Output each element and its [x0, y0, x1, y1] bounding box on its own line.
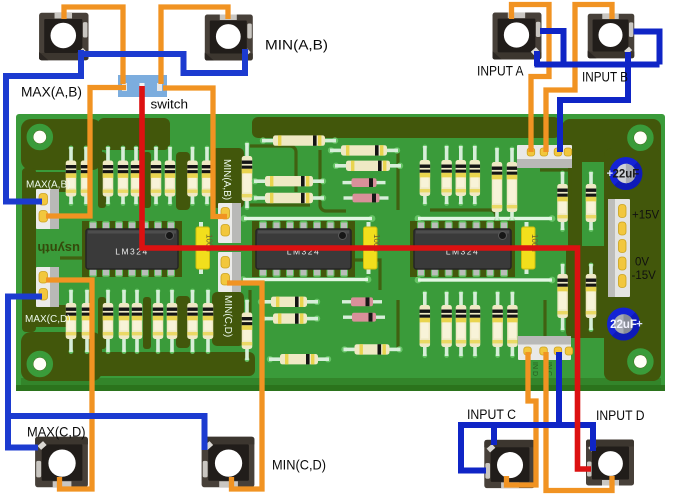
connector MIN(C,D): [218, 252, 241, 292]
wire INPUT A jack to header pin1 (orange): [512, 5, 550, 153]
resistor: [103, 289, 114, 354]
resistor: [260, 135, 338, 145]
resistor: [507, 291, 518, 358]
op-amp U3 LM324: [410, 221, 515, 277]
resistor: [557, 263, 568, 332]
resistor: [557, 171, 568, 232]
resistor: [470, 145, 481, 206]
capacitor C1 100n: [196, 222, 214, 274]
resistor: [252, 176, 326, 186]
op-amp U1 LM324: [82, 221, 182, 277]
capacitor C4 22uF electrolytic: [607, 157, 643, 190]
wire INPUT C/D link (blue): [461, 425, 593, 471]
jumper wire: [240, 276, 372, 283]
resistor: [202, 146, 213, 206]
op-amp U2 LM324: [252, 221, 355, 277]
jumper wire: [415, 277, 556, 284]
jack socket INPUT A: [493, 13, 542, 60]
resistor: [242, 142, 253, 210]
resistor: [151, 146, 162, 206]
wire INPUT B jack loop (blue): [634, 32, 660, 65]
resistor: [456, 145, 467, 206]
switch component: [118, 75, 167, 97]
resistor: [132, 289, 143, 354]
connector power header: [608, 199, 630, 297]
connector INPUT C/D: [518, 336, 573, 360]
svg-text:INPUT D: INPUT D: [596, 408, 645, 423]
resistor: [167, 289, 178, 354]
svg-text:INPUT C: INPUT C: [467, 407, 516, 422]
wire jack1 top to switch left pin (orange): [64, 7, 123, 84]
resistor: [586, 263, 597, 332]
wire jack1 to MAX(A,B) header (blue): [6, 50, 81, 202]
svg-text:MIN(C,D): MIN(C,D): [272, 457, 326, 473]
resistor: [456, 291, 467, 358]
svg-text:MIN(A,B): MIN(A,B): [221, 159, 232, 200]
wire jack2 top to switch right pin (orange): [161, 7, 228, 84]
wire jack A-B long link (blue): [535, 62, 660, 68]
svg-text:MIN(A,B): MIN(A,B): [265, 37, 328, 53]
resistor: [441, 145, 452, 206]
resistor: [507, 147, 518, 222]
resistor: [420, 291, 431, 358]
resistor: [119, 289, 130, 354]
resistor: [103, 146, 114, 206]
svg-text:-15V: -15V: [632, 270, 657, 282]
resistor: [258, 297, 320, 307]
svg-text:22uF: 22uF: [610, 319, 637, 331]
resistor: [333, 161, 403, 171]
wire INPUT A jack loop (blue): [540, 31, 564, 65]
resistor: [420, 145, 431, 206]
svg-text:+15V: +15V: [632, 210, 660, 222]
diode: [342, 297, 382, 306]
resistor: [586, 171, 597, 232]
diode: [343, 178, 386, 187]
connector MIN(A,B): [218, 203, 241, 243]
capacitor C5 22uF electrolytic: [607, 308, 643, 341]
resistor: [165, 146, 176, 206]
svg-text:MAX(C,D): MAX(C,D): [27, 424, 86, 440]
diode: [343, 313, 385, 322]
jumper wire: [241, 215, 376, 222]
wire jack3 to jack4 link (blue): [8, 416, 205, 450]
mounting hole: [630, 128, 650, 148]
wire switch right pin to MIN(A,B) header (orange): [163, 88, 227, 217]
resistor: [441, 291, 452, 358]
svg-text:MIN(C,D): MIN(C,D): [222, 295, 233, 337]
wire jack1 to jack2 link (blue): [79, 49, 245, 73]
resistor: [492, 291, 503, 358]
jack socket INPUT D: [586, 440, 634, 486]
wire INPUT B to header pin3 (blue): [560, 52, 628, 152]
resistor: [66, 289, 77, 354]
capacitor C2 100n: [364, 222, 382, 274]
svg-text:usynth: usynth: [37, 241, 80, 256]
wire INPUT C corner pin stub (blue): [491, 427, 497, 445]
resistor: [267, 354, 331, 364]
resistor: [153, 289, 164, 354]
svg-text:INPUT A: INPUT A: [477, 64, 524, 79]
jack socket MAX(A,B) output: [39, 13, 88, 60]
capacitor C3 100n: [522, 222, 540, 274]
resistor: [492, 147, 503, 222]
wire MAX(C,D) header to jack3 (blue): [8, 297, 42, 448]
PCB board: [16, 114, 665, 391]
wire switch to INPUT D jack (red): [142, 86, 591, 469]
resistor: [118, 146, 129, 206]
resistor: [242, 299, 253, 362]
resistor: [260, 313, 320, 323]
resistor: [252, 193, 326, 203]
svg-text:MAX(A,B): MAX(A,B): [21, 84, 82, 100]
svg-text:MAX(A,B): MAX(A,B): [26, 180, 70, 191]
jack socket MIN(C,D) output: [202, 437, 255, 488]
wire switch left pin to MAX(A,B) header (orange): [46, 88, 126, 217]
resistor: [341, 344, 402, 354]
svg-text:INPUT B: INPUT B: [582, 70, 628, 85]
wire header to INPUT D jack (orange): [546, 352, 612, 491]
resistor: [66, 146, 77, 206]
resistor: [187, 289, 198, 354]
diode: [344, 194, 389, 203]
mounting hole: [630, 352, 650, 372]
wire MAX(C,D) header to jack3 (orange): [46, 280, 92, 489]
wire INPUT A corner pin stub (blue): [534, 51, 540, 66]
jack socket MAX(C,D) output: [35, 437, 88, 488]
jack socket MIN(A,B) output: [205, 15, 253, 61]
connector MAX(C,D): [36, 267, 59, 307]
resistor: [131, 146, 142, 206]
svg-text:0V: 0V: [635, 257, 649, 269]
svg-text:IN D: IN D: [531, 362, 538, 376]
resistor: [328, 145, 400, 155]
wire INPUT B jack to header pin2 (orange): [546, 5, 612, 153]
svg-text:MAX(C,D): MAX(C,D): [25, 314, 71, 325]
resistor: [470, 291, 481, 358]
resistor: [187, 146, 198, 206]
resistor: [81, 146, 92, 206]
wire header to INPUT C jack (orange): [507, 352, 537, 485]
wire MIN(C,D) header to jack4 (orange): [227, 283, 262, 489]
resistor: [203, 289, 214, 354]
jack socket INPUT C: [484, 440, 534, 488]
connector INPUT A/B: [517, 145, 572, 168]
jumper wire: [415, 215, 556, 222]
svg-text:22uF: 22uF: [612, 169, 639, 181]
resistor: [82, 289, 93, 354]
jack socket INPUT B: [588, 14, 635, 59]
svg-text:+: +: [636, 319, 642, 331]
mounting hole: [30, 127, 50, 147]
connector MAX(A,B): [36, 189, 59, 229]
svg-text:switch: switch: [151, 97, 189, 112]
wire header to INPUT C/D drop (blue): [556, 352, 562, 428]
mounting hole: [30, 354, 50, 374]
